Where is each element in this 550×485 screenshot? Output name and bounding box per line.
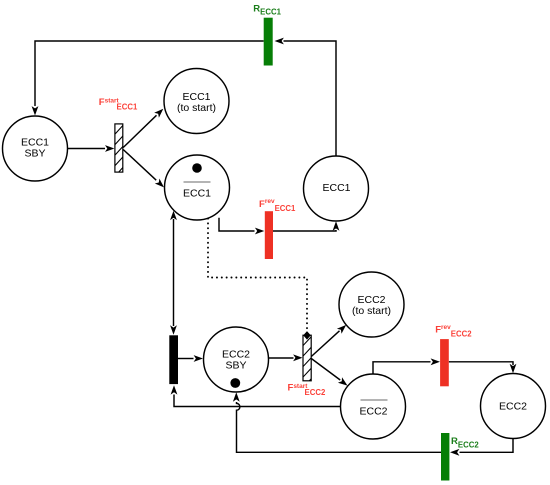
svg-text:(to start): (to start) <box>352 305 391 317</box>
svg-text:ECC1: ECC1 <box>322 182 350 194</box>
svg-text:SBY: SBY <box>225 359 246 371</box>
svg-text:(to start): (to start) <box>177 102 216 114</box>
svg-text:FstartECC1: FstartECC1 <box>99 97 138 112</box>
svg-text:FrevECC1: FrevECC1 <box>259 198 296 213</box>
svg-text:RECC1: RECC1 <box>253 3 281 16</box>
svg-text:FrevECC2: FrevECC2 <box>435 324 472 339</box>
svg-text:ECC1: ECC1 <box>183 188 211 200</box>
svg-text:ECC2: ECC2 <box>359 405 387 417</box>
svg-text:SBY: SBY <box>24 147 45 159</box>
svg-text:RECC2: RECC2 <box>451 436 479 449</box>
svg-text:ECC2: ECC2 <box>499 401 527 413</box>
svg-text:FstartECC2: FstartECC2 <box>288 383 326 397</box>
